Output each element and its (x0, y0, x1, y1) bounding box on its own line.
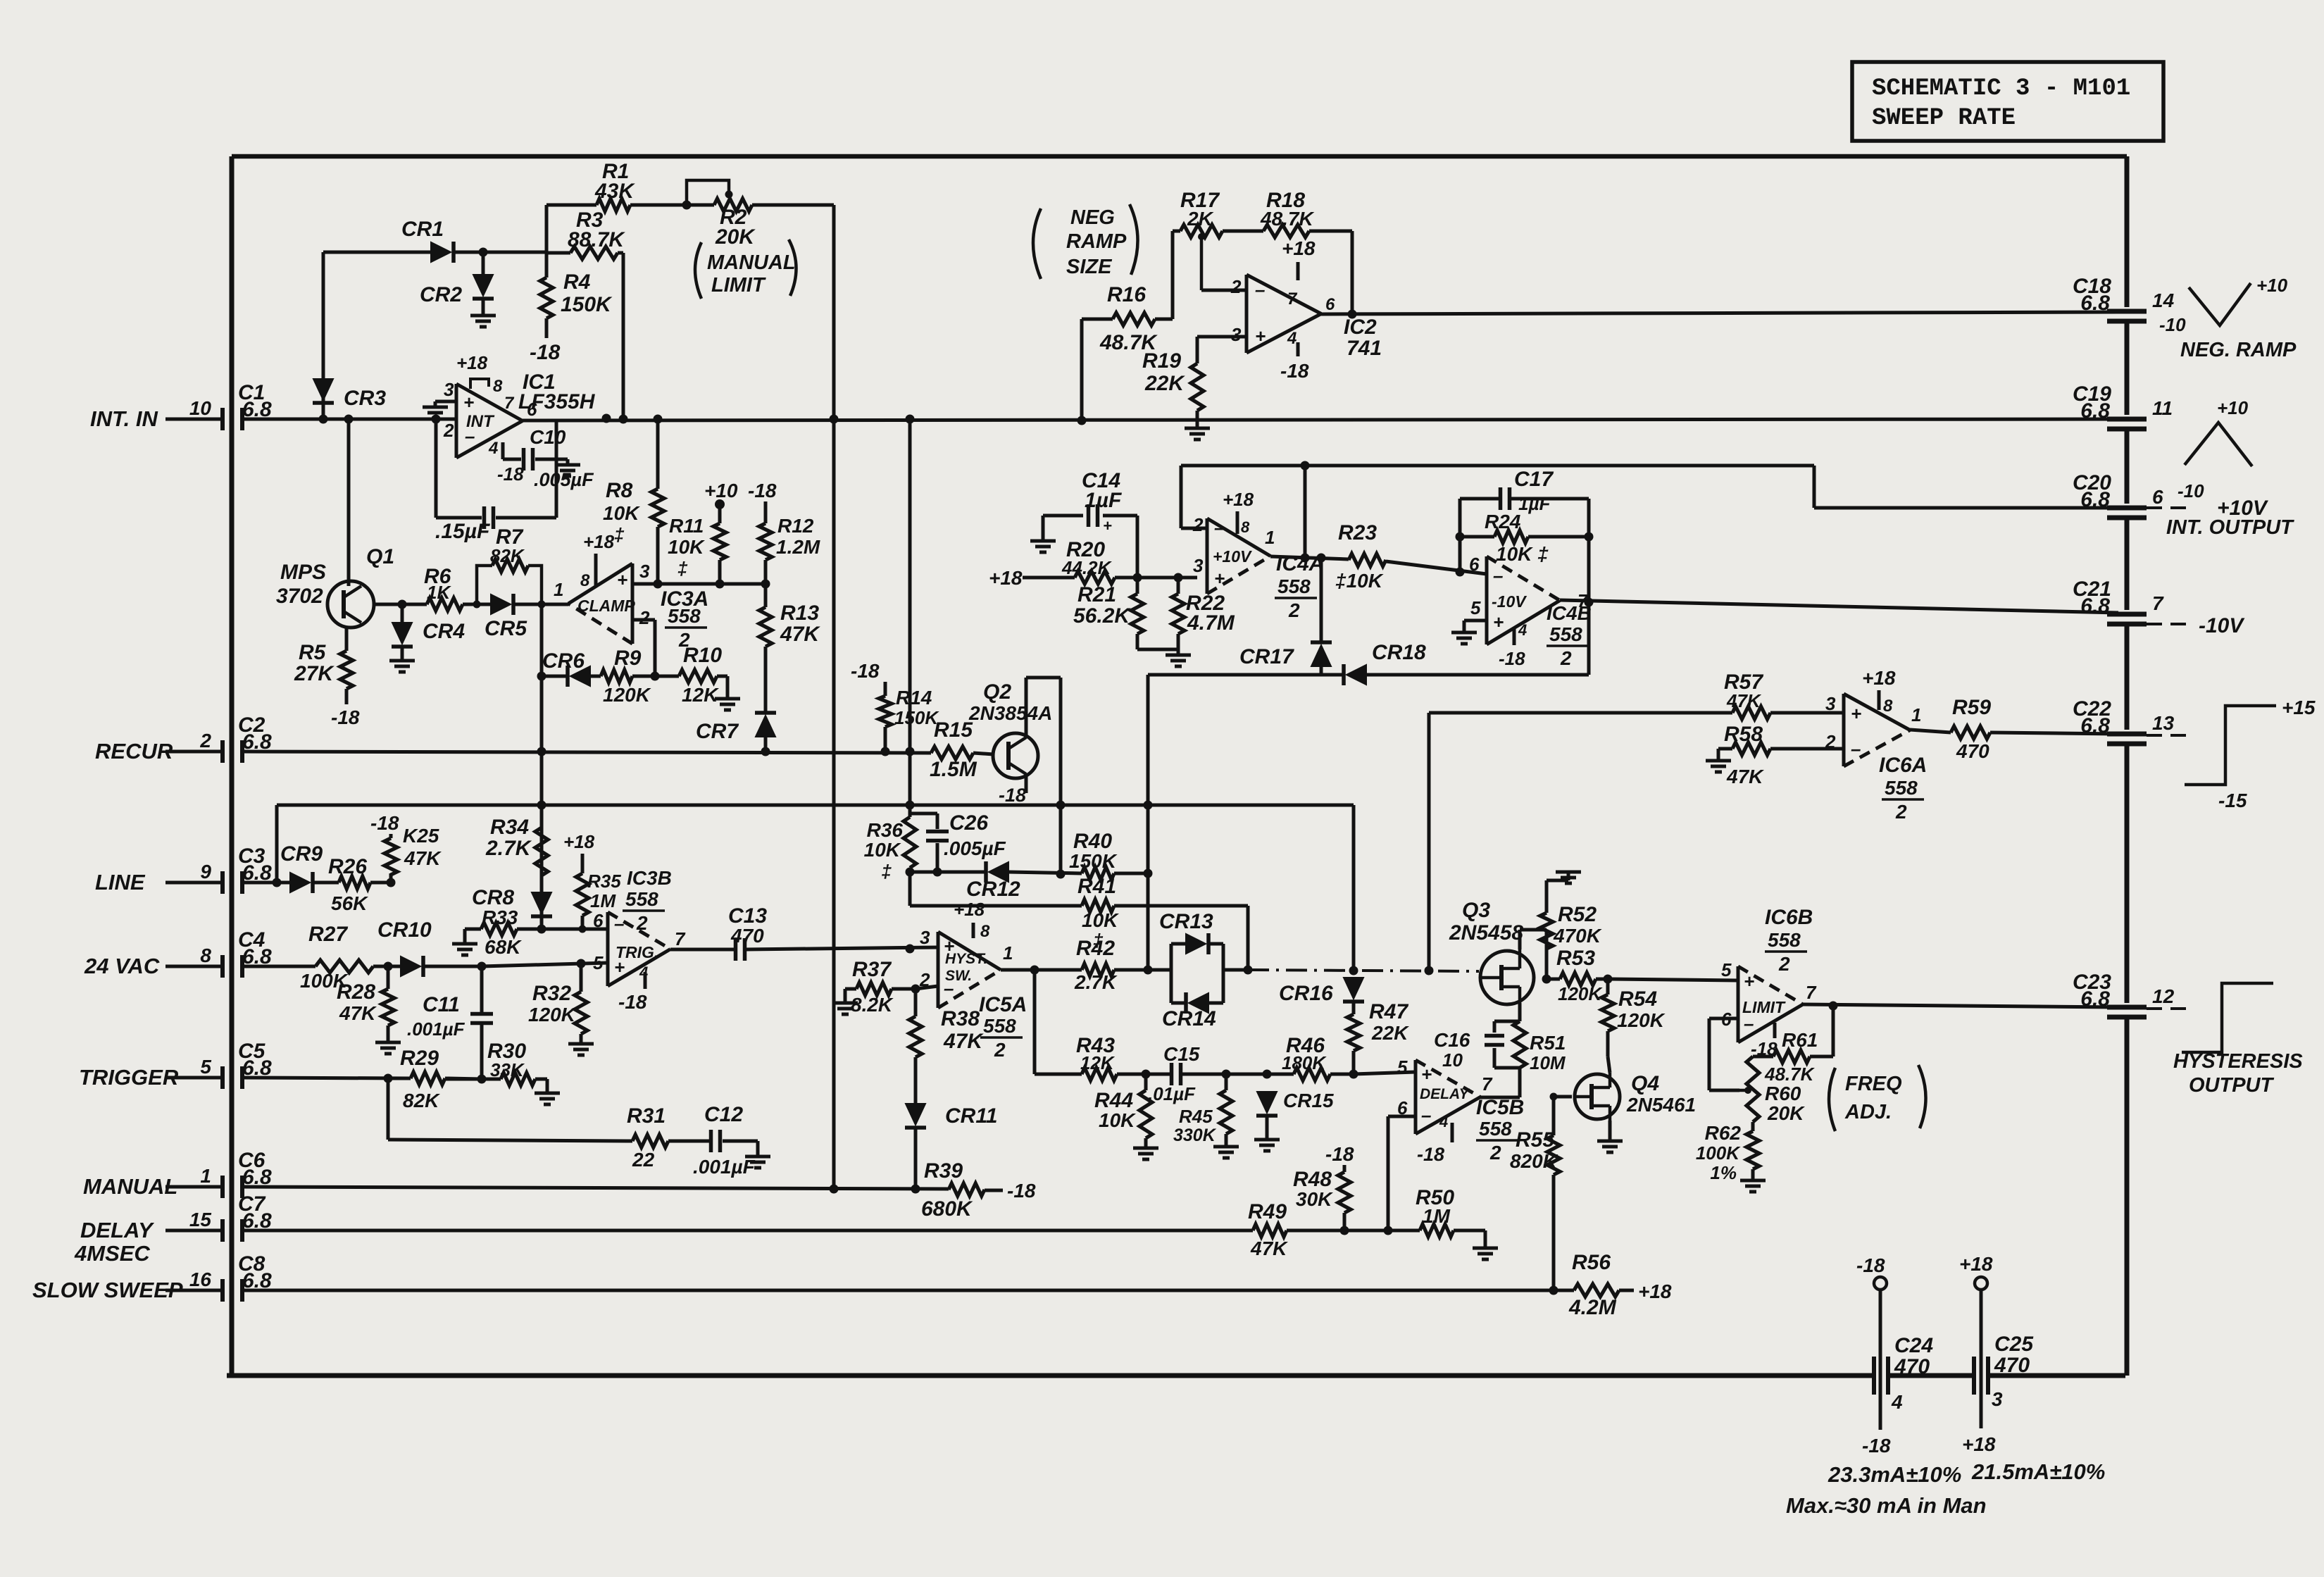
resistor R13 (759, 607, 772, 647)
capacitor C1 plates on left bus (220, 408, 225, 430)
svg-text:2: 2 (639, 607, 650, 628)
wire R61 left (1753, 1055, 1773, 1059)
svg-text:R10: R10 (683, 644, 722, 667)
node R35 pin6 (579, 925, 587, 933)
ground R32 (568, 1042, 594, 1046)
svg-text:‡: ‡ (677, 558, 688, 579)
svg-text:R33: R33 (482, 906, 518, 928)
capacitor C19 plates on right bus (2107, 417, 2147, 422)
node R14 on RECUR (881, 747, 890, 756)
node 1292 RECUR (906, 747, 915, 756)
diode CR2 (473, 275, 493, 296)
border right bus segment (2125, 624, 2130, 730)
wire +10V reference line (1181, 464, 1814, 468)
diode CR6 left (570, 666, 590, 686)
node CR16 top (1349, 966, 1358, 976)
svg-text:R9: R9 (614, 647, 642, 670)
wire R16 to R17 (1155, 318, 1173, 321)
ground IC4B pin5 (1451, 631, 1477, 635)
svg-text:-10: -10 (2159, 314, 2186, 335)
svg-text:CR16: CR16 (1279, 982, 1333, 1005)
capacitor C10 (522, 448, 526, 470)
wire hyst to R57 vert (1427, 713, 1431, 971)
ground R33 (452, 942, 477, 946)
svg-text:6: 6 (593, 910, 604, 931)
wire IC6B pin6 loop (1709, 1017, 1738, 1021)
svg-text:2: 2 (1192, 514, 1204, 535)
wire R44 top stub (1144, 1074, 1148, 1090)
potentiometer R2 (714, 199, 752, 211)
svg-text:RECUR: RECUR (95, 739, 173, 763)
ground Q4 (1597, 1140, 1623, 1143)
diode CR7 up (756, 716, 775, 737)
border bottom (227, 1373, 1874, 1378)
svg-text:1µF: 1µF (1518, 493, 1551, 514)
node R2 wiper (725, 191, 733, 199)
node fb top (1301, 461, 1310, 470)
svg-text:7: 7 (1287, 289, 1298, 308)
wire R8 top (656, 419, 660, 489)
svg-text:‡: ‡ (614, 524, 625, 545)
svg-text:R24: R24 (1485, 511, 1521, 532)
wire -10V line (1560, 600, 2118, 613)
svg-text:Q1: Q1 (366, 545, 394, 568)
wire CR12-R40 (1008, 872, 1082, 873)
svg-text:R34: R34 (490, 816, 529, 839)
wire CR6-R9 (590, 675, 601, 678)
svg-text:2: 2 (1778, 953, 1790, 975)
capacitor C12 (709, 1130, 713, 1152)
node R44 top (1142, 1070, 1151, 1079)
resistor R1 (596, 199, 630, 211)
svg-text:-18: -18 (1325, 1143, 1354, 1165)
resistor R39 (949, 1183, 985, 1196)
resistor R61 (1773, 1050, 1810, 1063)
svg-text:+18: +18 (954, 899, 985, 920)
svg-text:558: 558 (983, 1015, 1016, 1037)
svg-text:OUTPUT: OUTPUT (2189, 1074, 2275, 1097)
svg-text:–: – (1851, 738, 1861, 759)
capacitor C23 plates on right bus (2107, 1005, 2147, 1010)
resistor R9 (601, 670, 632, 682)
pot R17 wiper (1200, 237, 1204, 290)
terminal R11 +10 (715, 499, 725, 509)
node R11 pin3 (716, 580, 725, 589)
svg-text:MANUAL: MANUAL (707, 251, 796, 274)
wire R55 chain (1552, 1097, 1556, 1135)
wire 1143 left corner (275, 805, 279, 883)
svg-text:IC6B: IC6B (1765, 906, 1813, 929)
svg-text:558: 558 (625, 888, 658, 910)
node IC2 out (1348, 310, 1357, 319)
wire R53 right (1596, 978, 1608, 981)
wire CR14 bottom left (1171, 1002, 1186, 1005)
wire R17-R18 (1223, 230, 1263, 233)
node R25 on LINE (387, 878, 396, 887)
svg-text:CR4: CR4 (423, 620, 465, 643)
resistor R29 (411, 1072, 445, 1085)
svg-text:+18: +18 (563, 831, 595, 852)
svg-text:IC5A: IC5A (979, 993, 1027, 1016)
wire IC5B out (1480, 1096, 1520, 1099)
wire CR11 bottom (914, 1128, 918, 1189)
paren left manual (695, 242, 701, 299)
paren left freq (1829, 1068, 1835, 1131)
ground R28 (375, 1041, 401, 1045)
wire R34 top (540, 805, 544, 828)
wire Q1 emitter up (347, 419, 351, 586)
svg-text:558: 558 (1479, 1118, 1512, 1140)
svg-text:-15: -15 (2218, 790, 2247, 811)
wire vert 1292 (908, 419, 912, 817)
wire R52 top gnd (1545, 880, 1549, 913)
wire R25 bottom (389, 873, 393, 883)
svg-text:HYST.: HYST. (945, 951, 987, 967)
resistor R28 (382, 989, 394, 1026)
node CR11 manual (911, 1185, 920, 1194)
wire Q2 collector (1025, 678, 1028, 737)
svg-text:10K: 10K (603, 502, 640, 524)
wire R7 bracket (477, 566, 492, 604)
resistor R42 (1082, 964, 1114, 976)
svg-text:12K: 12K (682, 684, 719, 706)
svg-text:R26: R26 (328, 855, 367, 878)
resistor R43 (1082, 1068, 1117, 1080)
wire R57 right (1770, 711, 1844, 715)
resistor R26 (339, 876, 370, 889)
wire R45 gnd (1225, 1134, 1228, 1147)
terminal C25 (1975, 1277, 1987, 1290)
svg-text:TRIGGER: TRIGGER (79, 1065, 179, 1090)
resistor R7 (492, 559, 528, 572)
svg-text:K25: K25 (403, 825, 439, 847)
wire CR2 stub (482, 252, 485, 275)
resistor R30 (501, 1073, 535, 1085)
wire CR13 top left (1171, 942, 1186, 946)
svg-text:-18: -18 (618, 991, 647, 1013)
paren left neg (1033, 208, 1041, 279)
node R16 on INT (1077, 416, 1087, 425)
svg-text:470: 470 (1994, 1354, 2030, 1377)
wire R2 right vertical long (832, 205, 836, 1189)
node R2 left (682, 201, 692, 210)
svg-text:558: 558 (1549, 623, 1582, 645)
wire R55 bottom (1552, 1175, 1556, 1290)
resistor R45 (1220, 1090, 1232, 1134)
capacitor C3 plates on left bus (220, 871, 225, 894)
wire R13 to CR7 (764, 647, 768, 713)
op-amp IC2 (1245, 275, 1249, 353)
svg-text:‡: ‡ (882, 861, 892, 882)
pin 8 bracket IC1 (470, 379, 489, 389)
svg-text:NEG. RAMP: NEG. RAMP (2180, 339, 2297, 361)
diode CR13 (1186, 934, 1206, 954)
wire IC3B -18 stub (644, 972, 647, 989)
node CR7 on RECUR (761, 747, 770, 756)
neg ramp waveform (2189, 283, 2251, 325)
resistor R41 (1082, 899, 1114, 912)
wire R3 vertical to INT (622, 253, 625, 419)
wire R10 right gnd (717, 675, 727, 678)
svg-text:22K: 22K (1144, 372, 1185, 395)
resistor R23 (1349, 554, 1386, 566)
svg-text:.005µF: .005µF (944, 837, 1006, 859)
svg-text:150K: 150K (561, 293, 613, 316)
potentiometer R60 (1747, 1056, 1759, 1122)
svg-text:R45: R45 (1179, 1106, 1213, 1127)
node IC4B fbloop left (1456, 568, 1465, 577)
border left input bus (230, 156, 235, 1376)
svg-text:6: 6 (1469, 554, 1480, 575)
node R21 top (1133, 573, 1142, 582)
svg-text:120K: 120K (528, 1004, 577, 1026)
svg-text:IC2: IC2 (1344, 316, 1377, 339)
node R41 R42 (1244, 966, 1253, 975)
svg-text:5: 5 (593, 952, 604, 973)
svg-text:R59: R59 (1952, 696, 1991, 719)
wire R21-R22 join (1136, 634, 1139, 649)
wire R40 right (1114, 872, 1148, 875)
wire R28 gnd (387, 1026, 390, 1042)
diode CR3 (313, 379, 333, 400)
wire C12 right (723, 1140, 758, 1143)
svg-text:558: 558 (1885, 777, 1918, 799)
wire vert 1630 (1147, 675, 1150, 970)
wire C24 vertical (1879, 1290, 1882, 1430)
wire LINE line b (313, 881, 339, 885)
svg-text:IC3B: IC3B (627, 867, 672, 889)
wire R29 left (388, 1077, 411, 1080)
ground R45 (1213, 1145, 1239, 1149)
node R12 pin3 (761, 580, 770, 589)
wire CR2 to gnd (482, 299, 485, 316)
wire CR15 gnd (1266, 1116, 1269, 1140)
svg-text:2: 2 (1230, 276, 1242, 297)
svg-text:2N5461: 2N5461 (1626, 1094, 1696, 1116)
svg-text:10K: 10K (864, 839, 901, 861)
wire R14 top stub (884, 682, 887, 696)
wire IC4A +18 stub (1236, 511, 1239, 534)
svg-text:15: 15 (189, 1209, 212, 1230)
border right bus segment (2125, 429, 2130, 504)
diode CR15 down (1257, 1092, 1277, 1113)
wire CR6 row a (542, 675, 568, 678)
resistor R58 (1732, 742, 1770, 755)
node CR3 on INT (319, 415, 328, 424)
svg-text:.01µF: .01µF (1148, 1083, 1196, 1104)
wire CR14 bottom right (1208, 1002, 1223, 1005)
node CR15 top (1263, 1070, 1272, 1079)
wire CR7 bottom (764, 737, 768, 752)
svg-text:RAMP: RAMP (1066, 230, 1127, 253)
wire R11 bottom (718, 560, 722, 584)
svg-text:5: 5 (1470, 597, 1481, 618)
svg-text:-18: -18 (1862, 1435, 1891, 1457)
op-amp IC1 (455, 384, 458, 458)
svg-text:+18: +18 (989, 567, 1023, 589)
resistor R55 (1547, 1135, 1560, 1175)
resistor R59 (1951, 726, 1990, 739)
svg-text:9: 9 (200, 861, 211, 883)
svg-text:6: 6 (1325, 295, 1335, 314)
wire CR1 row (323, 251, 431, 254)
wire 24VAC line a (242, 965, 316, 968)
svg-text:470: 470 (1894, 1355, 1930, 1378)
wire CR13 box left (1170, 944, 1173, 1003)
capacitor C21 plates on right bus (2107, 612, 2147, 617)
svg-text:R49: R49 (1248, 1200, 1287, 1223)
wire R31 row (388, 1140, 632, 1141)
svg-text:C16: C16 (1434, 1029, 1470, 1051)
svg-text:120K: 120K (1617, 1009, 1666, 1031)
wire R61 right (1810, 1055, 1833, 1059)
resistor R31 (632, 1135, 668, 1147)
wire R53 left (1547, 978, 1560, 981)
svg-text:+18: +18 (1959, 1253, 1993, 1275)
svg-text:5: 5 (1397, 1056, 1408, 1078)
ground R22 (1166, 654, 1191, 657)
wire R62 gnd (1751, 1169, 1755, 1180)
wire TRIG out (670, 948, 709, 952)
capacitor C17 (1499, 487, 1503, 510)
wire R50 gnd (1454, 1229, 1485, 1233)
capacitor C24 plates (1872, 1357, 1876, 1395)
svg-text:CR3: CR3 (344, 387, 386, 410)
wire C17 row (1460, 497, 1499, 501)
svg-text:+: + (1493, 611, 1504, 632)
svg-text:10K: 10K (1082, 909, 1119, 931)
svg-text:47K: 47K (339, 1002, 377, 1024)
resistor R20 (1075, 571, 1115, 584)
svg-text:Q4: Q4 (1631, 1072, 1659, 1095)
node R38 top (911, 985, 920, 994)
resistor R40 (1082, 867, 1114, 880)
capacitor C16 (1485, 1034, 1504, 1038)
resistor R21 (1131, 594, 1144, 634)
svg-text:CR6: CR6 (542, 649, 585, 673)
diode CR10 (401, 956, 420, 976)
node R45 top (1222, 1070, 1231, 1079)
svg-text:120K: 120K (603, 684, 651, 706)
wire R46 to IC5B (1354, 1072, 1416, 1074)
wire R5 bottom (345, 689, 349, 704)
svg-text:DELAY: DELAY (1420, 1086, 1470, 1102)
svg-text:47K: 47K (1250, 1238, 1288, 1259)
wire R34-CR8 (540, 875, 544, 892)
node col775 1143 (537, 801, 546, 810)
node 2029 R42 (1425, 966, 1434, 976)
node R61 top (1829, 1002, 1838, 1011)
svg-text:3: 3 (1193, 555, 1204, 576)
resistor R62 (1747, 1131, 1759, 1169)
wire +10V dashes (2147, 506, 2187, 509)
svg-text:R13: R13 (780, 601, 819, 625)
svg-text:-18: -18 (1499, 648, 1525, 669)
wire IC4A output (1270, 556, 1349, 559)
wire R44 gnd (1144, 1138, 1148, 1148)
wire R46 right (1330, 1073, 1354, 1076)
svg-text:C12: C12 (704, 1103, 743, 1126)
ground CR4 (389, 659, 415, 663)
resistor R5 (340, 651, 353, 689)
node Q4 gate R55 (1550, 1093, 1558, 1101)
resistor R32 (575, 992, 587, 1034)
svg-text:3: 3 (639, 561, 650, 582)
svg-text:20K: 20K (1767, 1102, 1805, 1124)
resistor R10 (679, 670, 717, 682)
wire input SLOW SWEEP left (165, 1289, 223, 1292)
svg-text:558: 558 (1768, 929, 1801, 951)
svg-text:10K: 10K (668, 536, 705, 558)
svg-text:4: 4 (1518, 621, 1527, 639)
wire C16 branch (1493, 1048, 1497, 1068)
svg-text:6: 6 (2152, 486, 2163, 508)
svg-text:HYSTERESIS: HYSTERESIS (2173, 1050, 2303, 1073)
wire IC5A +18 stub (972, 923, 975, 938)
resistor R44 (1139, 1090, 1152, 1138)
svg-text:R29: R29 (400, 1047, 439, 1070)
svg-text:7: 7 (2152, 592, 2164, 614)
wire C13 right (745, 947, 938, 949)
svg-text:C15: C15 (1163, 1043, 1200, 1065)
title box (1852, 62, 2163, 141)
svg-text:R37: R37 (852, 958, 892, 981)
wire CR1 to R3 node (454, 251, 546, 254)
node IC4B out (1585, 598, 1594, 607)
capacitor C5 plates on left bus (220, 1066, 225, 1089)
svg-text:-18: -18 (851, 660, 880, 682)
wire C10 branch (501, 442, 505, 459)
potentiometer R17 (1180, 225, 1223, 237)
node IC5B loop delay (1384, 1226, 1393, 1235)
node CR2 top (479, 248, 488, 257)
svg-text:180K: 180K (1282, 1052, 1327, 1073)
svg-text:6: 6 (527, 399, 537, 420)
wire R30 gnd (535, 1078, 547, 1081)
resistor R49 (1253, 1224, 1287, 1237)
svg-text:13: 13 (2152, 712, 2175, 734)
diode CR5 (491, 594, 511, 614)
node R7 left (473, 601, 481, 609)
svg-text:–: – (1744, 1013, 1754, 1034)
wire R35 top (581, 854, 585, 873)
wire R58 right (1770, 747, 1844, 751)
op-amp IC3B (606, 912, 610, 986)
wire R29 right (445, 1078, 482, 1079)
wire R54 top stub (1606, 979, 1610, 995)
resistor R50 (1420, 1224, 1454, 1237)
svg-text:CR13: CR13 (1159, 910, 1213, 933)
wire R61 vert (1832, 1006, 1835, 1056)
svg-text:SIZE: SIZE (1066, 256, 1113, 278)
svg-text:CR8: CR8 (472, 886, 514, 909)
wire R6-CR5 (463, 603, 491, 606)
op-amp IC6A (1842, 694, 1846, 766)
svg-text:SCHEMATIC 3 - M101: SCHEMATIC 3 - M101 (1872, 75, 2130, 102)
resistor R46 (1294, 1068, 1330, 1080)
ground R37 (845, 987, 856, 991)
wire MANUAL line (242, 1187, 949, 1189)
svg-text:24 VAC: 24 VAC (84, 954, 160, 978)
capacitor C13 (734, 938, 738, 961)
wire R12 bottom (764, 560, 768, 584)
resistor R34 (535, 828, 548, 875)
svg-text:R52: R52 (1558, 903, 1597, 926)
svg-text:NEG: NEG (1070, 206, 1115, 229)
ground R62 (1740, 1179, 1766, 1183)
svg-text:-18: -18 (370, 812, 399, 834)
svg-text:–: – (1255, 279, 1265, 300)
